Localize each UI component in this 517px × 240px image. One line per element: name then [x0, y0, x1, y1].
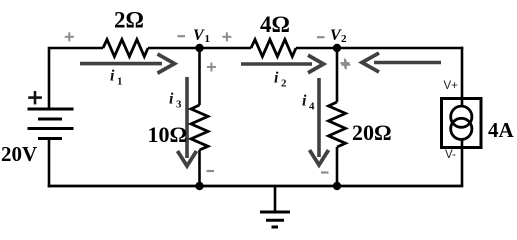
svg-text:3: 3	[176, 99, 182, 111]
polarity + top of 10 ohm	[207, 63, 216, 72]
node V1 dot	[195, 44, 203, 52]
svg-text:2: 2	[281, 78, 287, 90]
polarity - right of 2 ohm	[178, 35, 186, 37]
current arrow from 4A source toward V2	[362, 53, 441, 72]
resistor 10 ohm	[191, 105, 208, 150]
polarity - bottom of 20 ohm	[321, 171, 329, 173]
wire V2 branch bottom	[336, 147, 339, 186]
svg-text:V: V	[193, 27, 205, 44]
current source circles	[451, 106, 472, 127]
polarity + left of 4 ohm	[222, 32, 231, 41]
wire bottom rail	[48, 185, 464, 188]
polarity + below V2	[341, 59, 350, 68]
wire right vertical top	[461, 47, 464, 107]
svg-text:2Ω: 2Ω	[114, 7, 144, 32]
svg-text:V-: V-	[445, 149, 456, 161]
svg-text:2: 2	[341, 33, 347, 45]
polarity + top of 20 ohm	[341, 60, 350, 69]
svg-text:4Ω: 4Ω	[260, 12, 290, 37]
svg-text:20V: 20V	[1, 142, 37, 166]
svg-text:4A: 4A	[488, 118, 515, 142]
node V2 dot	[333, 44, 341, 52]
ground stem	[274, 186, 277, 212]
wire V1 branch bottom	[198, 150, 201, 186]
svg-text:4: 4	[309, 101, 315, 113]
svg-text:i: i	[169, 91, 174, 108]
polarity + left of 2 ohm	[65, 32, 74, 41]
polarity - right of 4 ohm	[317, 36, 325, 38]
ground bar 2	[266, 219, 284, 222]
resistor 4 ohm	[251, 40, 296, 57]
node dot bottom of 10 ohm branch	[195, 182, 203, 190]
svg-text:i: i	[274, 70, 279, 87]
current source 4A box	[442, 99, 482, 148]
svg-text:V+: V+	[444, 80, 459, 92]
ground bar 3	[272, 226, 279, 229]
wire top rail from 4 ohm to right corner	[296, 47, 463, 50]
resistor 2 ohm	[103, 40, 148, 57]
svg-text:i: i	[302, 93, 307, 110]
wire right vertical bottom	[461, 140, 464, 187]
wire V1 branch top	[198, 48, 201, 105]
svg-text:i: i	[110, 68, 115, 85]
svg-text:1: 1	[117, 76, 123, 88]
current arrow i2	[241, 55, 324, 73]
current arrow i3	[178, 77, 197, 166]
ground bar 1	[260, 211, 290, 214]
resistor 20 ohm	[329, 102, 346, 147]
svg-text:10Ω: 10Ω	[148, 122, 188, 147]
wire top rail from 2 ohm to 4 ohm	[148, 47, 251, 50]
battery plus sign	[28, 91, 42, 104]
svg-text:1: 1	[205, 33, 211, 45]
svg-text:20Ω: 20Ω	[352, 120, 392, 145]
current arrow i4	[310, 78, 329, 165]
wire left vertical bottom	[48, 139, 51, 188]
wire V2 branch top	[336, 48, 339, 102]
polarity - bottom of 10 ohm	[207, 170, 215, 172]
node dot bottom of 20 ohm branch	[333, 182, 341, 190]
current arrow i1	[80, 54, 175, 73]
wire left vertical + top rail to 2-ohm resistor	[49, 48, 103, 109]
battery 20V plates	[28, 109, 74, 139]
